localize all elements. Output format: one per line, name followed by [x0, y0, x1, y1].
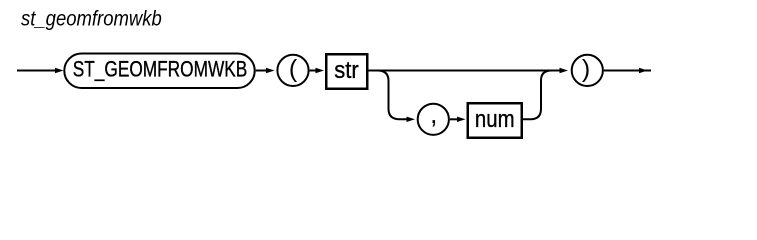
- svg-text:): ): [582, 55, 590, 83]
- svg-text:,: ,: [430, 99, 438, 129]
- wire branch down: [378, 71, 408, 120]
- arrowhead before comma: [407, 117, 416, 122]
- circle open-paren: [277, 55, 308, 86]
- arrowhead entry: [55, 68, 64, 73]
- arrowhead before close-paren: [560, 68, 569, 73]
- arrowhead before open-paren: [266, 68, 275, 73]
- wire num rejoin up: [523, 71, 552, 120]
- wire open-paren to str: [310, 70, 317, 72]
- circle close-paren: [572, 55, 603, 86]
- circle comma: [418, 104, 449, 135]
- svg-text:(: (: [289, 55, 298, 83]
- svg-text:st_geomfromwkb: st_geomfromwkb: [21, 7, 162, 31]
- box num: [468, 103, 522, 138]
- arrowhead before str: [316, 68, 325, 73]
- wire main str to close-paren: [369, 70, 561, 72]
- terminal pill ST_GEOMFROMWKB: [64, 54, 254, 89]
- arrowhead before num: [457, 117, 466, 122]
- svg-text:str: str: [334, 56, 359, 83]
- wire comma to num: [450, 118, 458, 120]
- arrowhead exit: [639, 68, 648, 73]
- wire exit: [604, 70, 651, 72]
- box str: [326, 54, 367, 89]
- svg-text:num: num: [475, 106, 515, 133]
- wire pill to open-paren: [256, 70, 267, 72]
- wire entry: [17, 70, 56, 72]
- svg-text:ST_GEOMFROMWKB: ST_GEOMFROMWKB: [73, 58, 248, 82]
